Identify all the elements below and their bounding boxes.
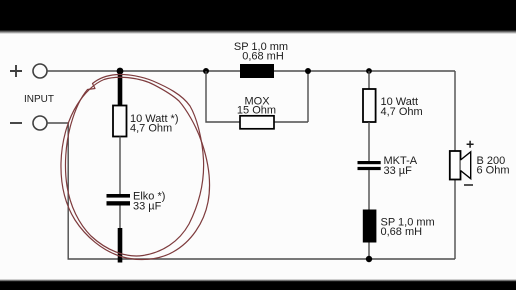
node: junction on bottom rail at second branch — [366, 256, 372, 262]
svg-text:4,7 Ohm: 4,7 Ohm — [130, 123, 172, 135]
wire: right vertical above speaker — [454, 71, 456, 151]
annotation: hand-drawn red circle around optional R1/C1 branch — [61, 74, 210, 259]
input terminal - — [10, 116, 47, 130]
resistor R1 10 Watt 4,7 Ohm — [113, 106, 127, 137]
node: junction on top rail right of MOX — [305, 68, 311, 74]
wire: bottom rail — [68, 258, 456, 260]
wire: top rail to R3 — [368, 71, 370, 89]
wire: right drop to MOX row — [307, 71, 309, 122]
node: junction on top rail at second branch — [366, 68, 372, 74]
wire: right vertical below speaker — [454, 180, 456, 260]
capacitor C1 Elko 33 uF — [107, 194, 131, 198]
wire: top rail from + terminal to right side — [47, 70, 455, 72]
capacitor C2 MKT-A 33 uF — [358, 161, 381, 164]
wire: thick lead from C1 branch to bottom rail — [118, 228, 123, 263]
inductor L1 SP 1,0 mm 0,68 mH (series on top rail) — [240, 64, 274, 78]
resistor R2 MOX 15 Ohm (parallel with L1) — [240, 116, 274, 129]
svg-text:4,7 Ohm: 4,7 Ohm — [381, 106, 423, 118]
svg-text:6 Ohm: 6 Ohm — [477, 164, 510, 176]
wire: left drop to MOX row — [206, 71, 308, 122]
svg-text:INPUT: INPUT — [24, 94, 54, 105]
inductor L2 SP 1,0 mm 0,68 mH — [363, 210, 377, 243]
svg-text:33 µF: 33 µF — [133, 201, 162, 213]
svg-text:15 Ohm: 15 Ohm — [237, 104, 276, 116]
wire: R1 to C1 — [119, 137, 121, 195]
svg-text:0,68 mH: 0,68 mH — [242, 50, 284, 62]
node: junction on top rail at first branch — [117, 68, 124, 75]
speaker LS1 B 200 6 Ohm — [450, 141, 510, 185]
input terminal + — [10, 64, 47, 78]
resistor R3 10 Watt 4,7 Ohm — [363, 89, 376, 122]
svg-text:0,68 mH: 0,68 mH — [381, 226, 423, 238]
wire: C1 down to thick lead — [119, 206, 121, 229]
wire: L2 to bottom rail — [368, 243, 370, 260]
wire: thick lead from top rail to R1 — [118, 71, 123, 106]
wire: R3 to C2 — [368, 122, 370, 161]
wire: C2 to L2 — [368, 170, 370, 210]
node: junction on top rail left of MOX — [203, 68, 209, 74]
svg-text:33 µF: 33 µF — [384, 165, 413, 177]
wire: minus stub and left vertical — [47, 123, 68, 259]
